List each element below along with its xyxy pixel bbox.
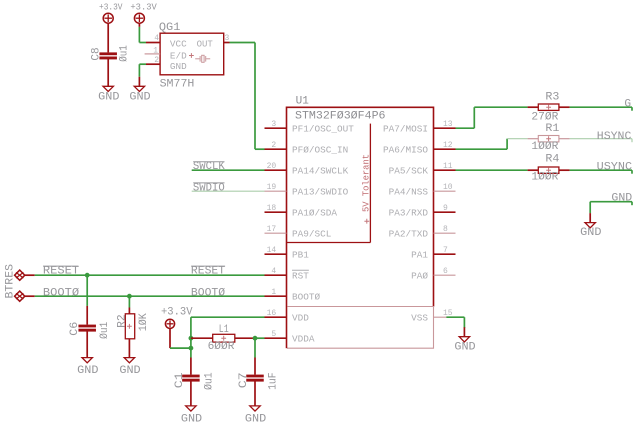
power +3.3V supply symbol P3: [165, 319, 174, 328]
U1 pin 9 (PA3/RXD) stub: [434, 211, 456, 213]
svg-text:PF1/OSC_OUT: PF1/OSC_OUT: [292, 123, 354, 134]
svg-text:GND: GND: [454, 342, 476, 354]
U1 pin 14 (PB1) stub: [265, 253, 287, 255]
junction on RESET at C6 branch: [85, 273, 90, 278]
svg-text:RST: RST: [292, 270, 309, 281]
svg-text:17: 17: [267, 225, 277, 234]
U1 pin 11 (PA5/SCK) stub: [434, 169, 456, 171]
svg-text:VCC: VCC: [170, 40, 187, 50]
wire net SWDIO: [192, 190, 265, 192]
svg-text:GND: GND: [170, 62, 187, 72]
power +3.3V supply symbol P1: [103, 13, 113, 23]
resistor R1: [528, 136, 570, 142]
QG1 pin 2 GND stub: [146, 63, 160, 65]
5V Tolerant group box: [287, 124, 371, 243]
IC U1 main box: [287, 107, 434, 306]
svg-text:2: 2: [154, 56, 159, 65]
svg-text:1: 1: [153, 46, 158, 55]
svg-text:3: 3: [271, 120, 276, 129]
svg-text:Øu1: Øu1: [118, 45, 130, 62]
svg-text:1ØØR: 1ØØR: [531, 171, 558, 183]
U1 pin 5 (VDDA) stub: [265, 337, 287, 339]
svg-text:PA2/TXD: PA2/TXD: [389, 228, 429, 239]
svg-text:C6: C6: [69, 322, 81, 336]
oscillator QG1 box: [160, 33, 224, 75]
svg-text:SM77H: SM77H: [160, 78, 195, 90]
wire R1 to net HSYNC: [570, 139, 632, 143]
U1 pin 2 (PFØ/OSC_IN) stub: [265, 148, 287, 150]
svg-text:GND: GND: [181, 413, 203, 425]
svg-text:VDD: VDD: [292, 312, 309, 323]
svg-text:+3.3V: +3.3V: [99, 1, 123, 12]
svg-text:STM32FØ3ØF4P6: STM32FØ3ØF4P6: [295, 111, 386, 123]
svg-text:PA4/NSS: PA4/NSS: [389, 186, 429, 197]
wire net GND right side: [590, 202, 632, 213]
svg-text:4: 4: [154, 34, 159, 43]
crystal icon inside QG1: [195, 55, 210, 62]
svg-text:BOOTØ: BOOTØ: [292, 291, 321, 302]
wire U1 PA7/MOSI to R3: [456, 107, 528, 128]
junction at C1 top branch: [189, 346, 194, 351]
svg-text:QG1: QG1: [159, 22, 181, 34]
R3 origin cross: [546, 105, 551, 110]
svg-text:1: 1: [271, 288, 276, 297]
svg-text:PA9/SCL: PA9/SCL: [292, 228, 331, 239]
svg-text:PB1: PB1: [292, 249, 309, 260]
svg-text:1uF: 1uF: [268, 372, 280, 390]
svg-text:RESET: RESET: [43, 266, 80, 278]
ground symbol under C8: [103, 86, 113, 91]
wire R3 to net G: [570, 107, 632, 111]
wire RESET to C6: [86, 275, 88, 306]
svg-text:PA3/RXD: PA3/RXD: [389, 207, 429, 218]
capacitor C6: [78, 306, 96, 358]
connector BTRES pad 2 (BOOT0 diamond): [15, 291, 25, 301]
L1 origin cross: [221, 336, 226, 341]
svg-text:PA1: PA1: [411, 249, 428, 260]
U1 pin 10 (PA4/NSS) stub: [434, 190, 456, 192]
svg-text:GND: GND: [119, 365, 141, 377]
svg-text:R4: R4: [545, 154, 559, 166]
svg-text:PA5/SCK: PA5/SCK: [389, 165, 429, 176]
QG1 pin 1 E/D stub: [145, 53, 161, 55]
svg-text:C7: C7: [238, 372, 250, 388]
svg-text:1ØØR: 1ØØR: [531, 141, 558, 153]
svg-text:14: 14: [267, 246, 277, 255]
net label SWCLK: [193, 161, 225, 173]
IC U1 power box: [287, 307, 434, 349]
svg-text:1ØK: 1ØK: [138, 313, 150, 331]
ground symbol right side: [585, 213, 595, 228]
wire U1 VSS pin 15 to ground: [446, 317, 464, 328]
svg-text:20: 20: [267, 162, 277, 171]
svg-text:PA7/MOSI: PA7/MOSI: [383, 123, 428, 134]
svg-text:E/D: E/D: [170, 52, 187, 62]
connector BTRES pad 1 (RESET diamond): [15, 270, 25, 280]
svg-text:13: 13: [443, 120, 453, 129]
svg-text:3: 3: [225, 34, 230, 43]
svg-text:C8: C8: [91, 47, 103, 60]
svg-text:USYNC: USYNC: [597, 162, 633, 174]
svg-text:R3: R3: [545, 91, 559, 103]
wire VDD rail vertical: [190, 317, 192, 357]
svg-text:4: 4: [271, 267, 276, 276]
wire VDD to U1 pin 16: [191, 316, 265, 318]
svg-text:Øu1: Øu1: [204, 372, 216, 390]
inductor L1: [191, 334, 255, 342]
ground symbol under R2: [124, 358, 134, 363]
U1 pin 8 (PA2/TXD) stub: [434, 232, 456, 234]
svg-text:GND: GND: [245, 413, 267, 425]
wire +3.3V P2 to QG1 VCC: [139, 23, 146, 42]
U1 pin 3 (PF1/OSC_OUT) stub: [265, 127, 287, 129]
wire net RESET: [35, 274, 265, 276]
capacitor C7: [246, 358, 264, 406]
svg-text:7: 7: [443, 246, 448, 255]
svg-text:VDDA: VDDA: [292, 333, 315, 344]
U1 pin 4 (RST) stub: [265, 274, 287, 276]
svg-text:19: 19: [267, 183, 277, 192]
resistor R4: [528, 167, 570, 173]
R1 origin cross: [546, 136, 551, 141]
U1 pin 15 (VSS) stub: [434, 316, 456, 318]
svg-text:U1: U1: [296, 96, 309, 108]
wire C7 branch: [254, 338, 256, 357]
svg-text:5V Tolerant: 5V Tolerant: [360, 154, 371, 212]
net label RESET right: [191, 266, 226, 278]
wire QG1 GND pin to ground: [139, 64, 146, 77]
capacitor C8: [99, 23, 117, 86]
U1 pin 6 (PAØ) stub: [434, 274, 456, 276]
svg-text:RESET: RESET: [191, 266, 226, 278]
power +3.3V supply symbol P2: [134, 13, 144, 23]
ground symbol under QG1: [134, 77, 144, 92]
QG1 pin 3 OUT stub: [224, 42, 230, 44]
svg-text:BOOTØ: BOOTØ: [43, 288, 80, 300]
QG1 origin cross: [189, 53, 194, 58]
svg-text:6ØØR: 6ØØR: [208, 341, 235, 353]
svg-text:2: 2: [271, 141, 276, 150]
svg-text:G: G: [624, 99, 631, 111]
svg-text:PA13/SWDIO: PA13/SWDIO: [292, 186, 349, 197]
svg-text:SWDIO: SWDIO: [193, 182, 225, 194]
ground symbol under C7: [250, 406, 260, 411]
wire QG1 OUT to U1 PF0/OSC_IN: [230, 43, 265, 150]
resistor R3: [528, 104, 570, 110]
svg-text:PFØ/OSC_IN: PFØ/OSC_IN: [292, 144, 348, 155]
svg-text:SWCLK: SWCLK: [193, 161, 225, 173]
U1 pin 1 (BOOTØ) stub: [265, 295, 287, 297]
svg-text:HSYNC: HSYNC: [597, 131, 632, 143]
svg-text:6: 6: [443, 267, 448, 276]
U1 pin 18 (PA1Ø/SDA) stub: [265, 211, 287, 213]
resistor R2: [125, 308, 134, 358]
U1 pin 19 (PA13/SWDIO) stub: [265, 190, 287, 192]
U1 pin 17 (PA9/SCL) stub: [265, 232, 287, 234]
svg-text:PAØ: PAØ: [411, 270, 428, 281]
svg-text:18: 18: [267, 204, 277, 213]
ground symbol under C6: [82, 348, 92, 363]
svg-text:12: 12: [443, 141, 453, 150]
ground symbol under C1: [186, 406, 196, 411]
svg-text:PA14/SWCLK: PA14/SWCLK: [292, 165, 349, 176]
wire net BOOT0: [35, 295, 265, 297]
wire net SWCLK: [192, 169, 265, 171]
R2 origin cross: [127, 324, 132, 329]
net label RESET left: [43, 266, 80, 278]
wire U1 PA5/SCK to R4: [456, 169, 528, 171]
svg-text:9: 9: [443, 204, 448, 213]
capacitor C1: [182, 358, 200, 406]
svg-text:R2: R2: [116, 314, 128, 328]
svg-text:27ØR: 27ØR: [531, 112, 558, 124]
U1 pin 12 (PA6/MISO) stub: [434, 148, 456, 150]
U1 pin 7 (PA1) stub: [434, 253, 456, 255]
svg-text:R1: R1: [545, 123, 559, 135]
BTRES pad 1 stub: [25, 274, 35, 276]
svg-text:Øu1: Øu1: [99, 321, 111, 339]
svg-text:GND: GND: [77, 365, 99, 377]
wire L1 to U1 VDDA pin 5: [255, 337, 265, 339]
svg-text:GND: GND: [129, 92, 151, 104]
wire R4 to net USYNC: [570, 170, 632, 174]
wire U1 PA6/MISO to R1: [456, 139, 528, 150]
U1 pin 20 (PA14/SWCLK) stub: [265, 169, 287, 171]
wire +3.3V P3 to VDD rail: [170, 328, 191, 348]
junction at L1 right / C7 top: [253, 336, 258, 341]
BTRES pad 2 stub: [25, 295, 35, 297]
U1 pin 16 (VDD) stub: [265, 316, 287, 318]
wire BOOT0 to R2: [128, 296, 130, 307]
svg-text:VSS: VSS: [411, 312, 428, 323]
junction on BOOT0 at R2 branch: [127, 294, 132, 299]
svg-text:L1: L1: [219, 324, 229, 336]
junction at L1 left: [189, 336, 194, 341]
svg-text:+3.3V: +3.3V: [130, 1, 157, 12]
svg-text:8: 8: [443, 225, 448, 234]
QG1 pin 4 VCC stub: [146, 42, 160, 44]
R4 origin cross: [546, 168, 551, 173]
svg-text:PA6/MISO: PA6/MISO: [383, 144, 428, 155]
svg-text:GND: GND: [580, 227, 602, 239]
U1 origin cross: [364, 219, 369, 224]
svg-text:11: 11: [443, 162, 453, 171]
net label SWDIO: [193, 182, 225, 194]
svg-text:+3.3V: +3.3V: [161, 306, 193, 318]
svg-text:GND: GND: [98, 92, 120, 104]
svg-text:GND: GND: [611, 193, 632, 205]
svg-text:16: 16: [267, 309, 277, 318]
svg-text:C1: C1: [174, 372, 186, 388]
U1 pin 13 (PA7/MOSI) stub: [434, 127, 456, 129]
svg-text:OUT: OUT: [197, 40, 214, 50]
svg-text:BTRES: BTRES: [4, 264, 16, 299]
svg-text:5: 5: [271, 330, 276, 339]
ground symbol under VSS: [459, 327, 469, 342]
svg-text:10: 10: [443, 183, 453, 192]
svg-text:BOOTØ: BOOTØ: [191, 288, 226, 300]
svg-text:PA1Ø/SDA: PA1Ø/SDA: [292, 207, 337, 218]
